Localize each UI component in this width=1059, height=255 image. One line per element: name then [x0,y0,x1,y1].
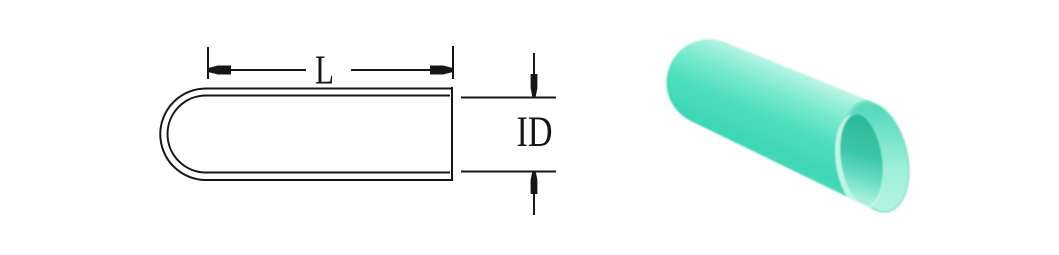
svg-text:L: L [315,47,334,93]
svg-text:ID: ID [517,109,553,156]
